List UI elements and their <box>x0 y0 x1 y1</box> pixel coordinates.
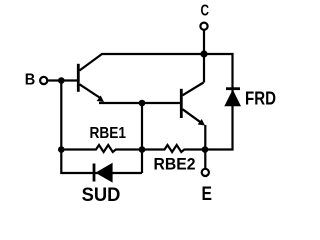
svg-text:SUD: SUD <box>82 185 121 206</box>
svg-text:C: C <box>201 3 210 20</box>
svg-text:RBE1: RBE1 <box>90 125 127 142</box>
svg-text:FRD: FRD <box>245 88 276 108</box>
svg-text:B: B <box>25 72 36 89</box>
svg-text:E: E <box>202 184 213 205</box>
svg-text:RBE2: RBE2 <box>154 154 196 173</box>
